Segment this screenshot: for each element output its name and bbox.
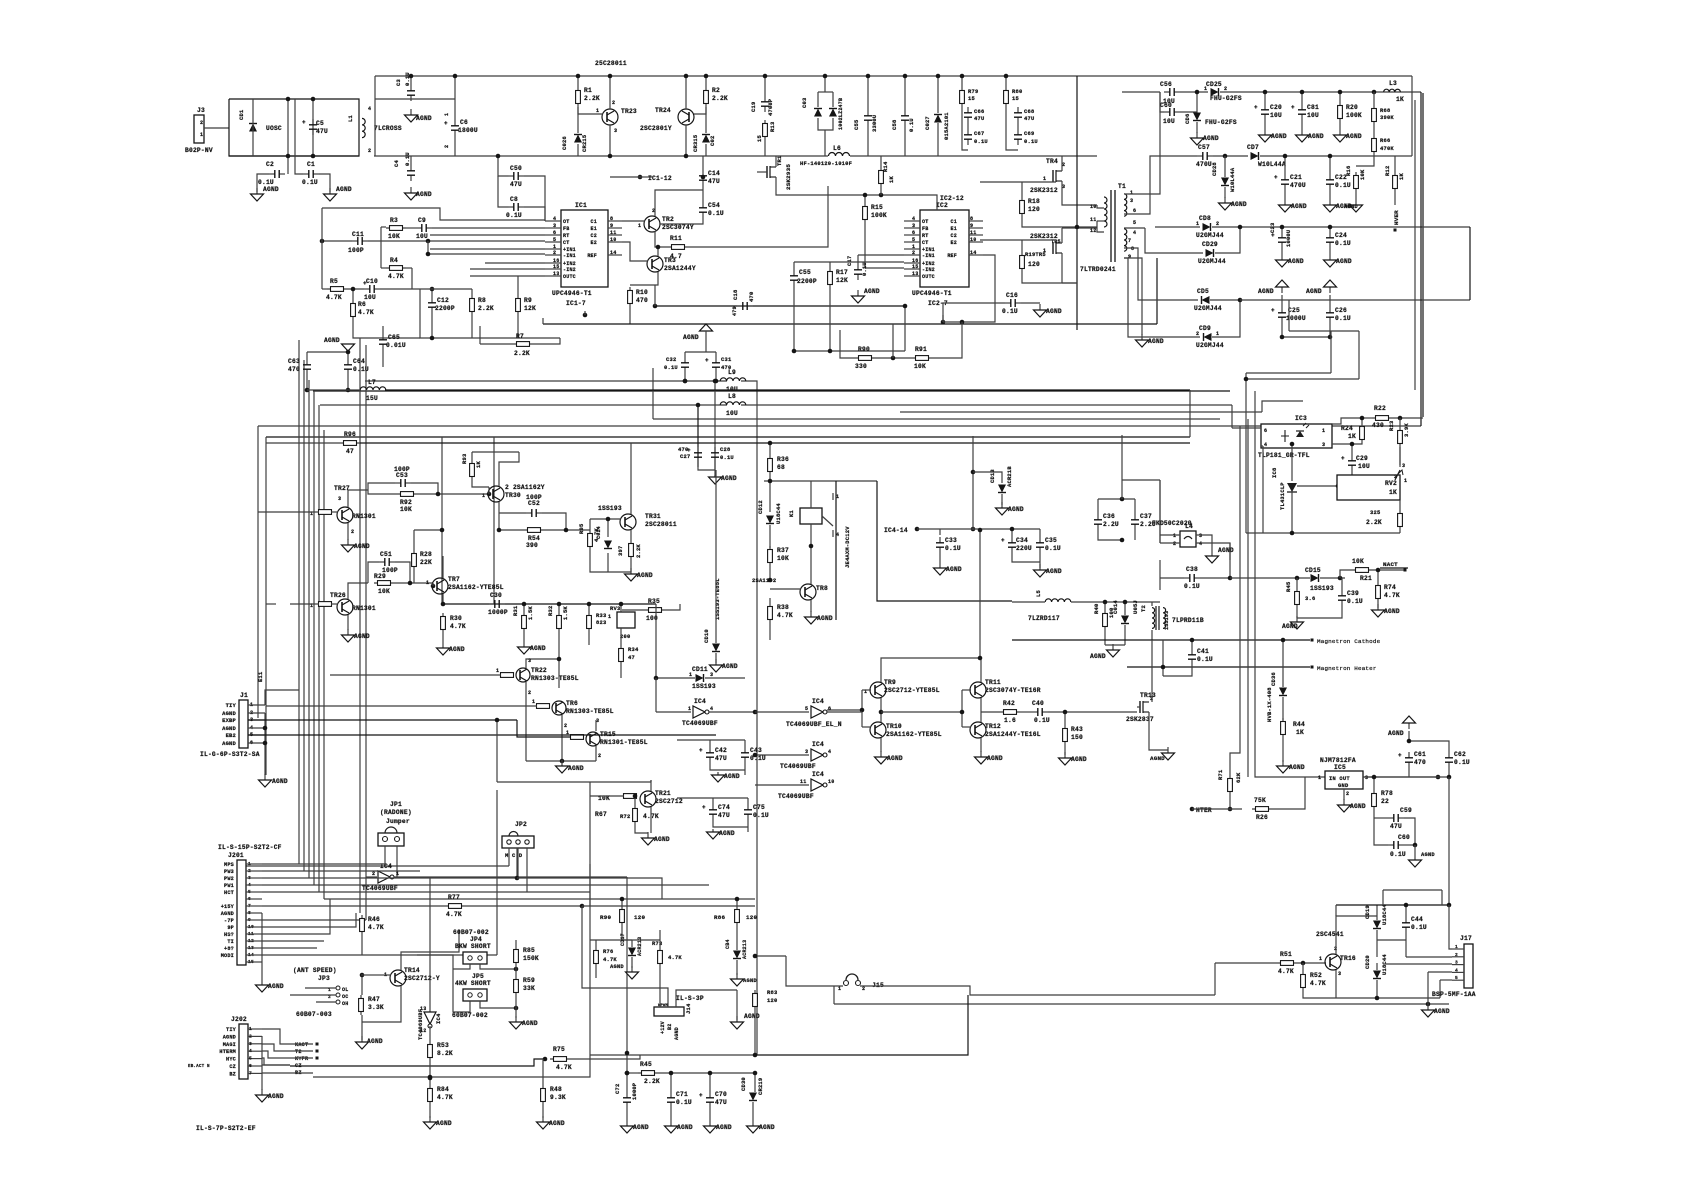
wire C50 out bbox=[524, 176, 545, 221]
svg-text:R18: R18 bbox=[1028, 198, 1040, 205]
capacitor C31 bbox=[705, 357, 720, 373]
wire TR26 base wire bbox=[290, 603, 319, 605]
wire sec2 from T1 bbox=[1124, 156, 1197, 214]
wire EXBP v bbox=[496, 720, 498, 782]
ground agnd C2 bbox=[251, 188, 264, 201]
wire C026 dn bbox=[577, 144, 579, 156]
wire j17 p4 bbox=[1428, 971, 1452, 973]
wire gateB out bbox=[709, 711, 755, 713]
svg-text:2: 2 bbox=[200, 120, 203, 126]
svg-text:1: 1 bbox=[688, 706, 691, 712]
resistor R22 bbox=[1372, 416, 1392, 421]
wire R77 line bbox=[336, 905, 445, 907]
wire r38 dn bbox=[769, 623, 771, 640]
svg-text:R43: R43 bbox=[1071, 726, 1083, 733]
diode C026 bbox=[574, 135, 582, 143]
wire right outer vertical2 bbox=[1414, 100, 1416, 390]
wire y892 long bbox=[319, 891, 590, 893]
wire R28 dn bbox=[413, 570, 415, 583]
wire C53 loop2 bbox=[411, 483, 438, 494]
wire TR5 drain bbox=[1061, 228, 1063, 243]
svg-text:1: 1 bbox=[200, 132, 203, 138]
svg-text:AGND: AGND bbox=[436, 1120, 452, 1127]
wire tr16 c net bbox=[1376, 905, 1378, 916]
ground agnd T2 bbox=[1107, 644, 1120, 657]
svg-text:R45: R45 bbox=[640, 1061, 652, 1068]
ground agnd TR27 bbox=[342, 539, 355, 552]
svg-text:CD5: CD5 bbox=[1197, 288, 1209, 295]
resistor R4 bbox=[386, 266, 406, 271]
svg-text:GND: GND bbox=[1338, 782, 1349, 789]
capacitor C35 bbox=[1036, 537, 1044, 553]
svg-text:AGND: AGND bbox=[416, 115, 432, 122]
wire r29 out bbox=[394, 582, 433, 584]
svg-text:3: 3 bbox=[1322, 442, 1325, 448]
wire c74 topline bbox=[677, 797, 748, 799]
svg-text:TR31: TR31 bbox=[645, 513, 661, 520]
svg-text:4700P: 4700P bbox=[767, 98, 774, 116]
svg-text:C63: C63 bbox=[288, 358, 300, 365]
svg-text:10K: 10K bbox=[914, 363, 926, 370]
svg-text:JP2: JP2 bbox=[515, 821, 527, 828]
wire C55 net top bbox=[794, 261, 904, 263]
svg-text:L8: L8 bbox=[728, 393, 736, 400]
wire J202 pin5 bbox=[248, 1058, 262, 1060]
svg-text:2SK2837: 2SK2837 bbox=[1126, 716, 1154, 723]
svg-text:10U: 10U bbox=[1163, 118, 1175, 125]
wire tr10 col bbox=[880, 712, 882, 722]
wire J202 pin6 bbox=[248, 1065, 262, 1067]
junction cd29 out bbox=[1238, 225, 1243, 230]
wire y866 bbox=[246, 865, 509, 867]
wire c34 up bbox=[1011, 529, 1013, 537]
wire R93 topnet bbox=[472, 451, 519, 453]
svg-text:60B07-002: 60B07-002 bbox=[453, 929, 489, 936]
svg-text:C55: C55 bbox=[799, 269, 811, 276]
wire tr8 col bbox=[810, 546, 812, 584]
svg-text:3: 3 bbox=[338, 496, 341, 502]
capacitor C10 bbox=[363, 280, 380, 293]
svg-text:J17: J17 bbox=[1460, 935, 1472, 942]
wire k1 frame bbox=[835, 481, 837, 620]
svg-text:AGND: AGND bbox=[887, 755, 903, 762]
wire r21 r bbox=[1372, 569, 1405, 571]
capacitor C57 bbox=[1197, 152, 1213, 160]
junction c41 bbox=[1190, 638, 1195, 643]
svg-text:L7: L7 bbox=[368, 379, 376, 386]
wire J201 p13 bbox=[262, 947, 317, 949]
svg-text:7LCROSS: 7LCROSS bbox=[374, 125, 402, 132]
wire TR26 int bbox=[331, 603, 338, 605]
capacitor C37 bbox=[1131, 514, 1139, 530]
svg-text:0.1U: 0.1U bbox=[720, 454, 734, 461]
svg-text:100P: 100P bbox=[394, 466, 410, 473]
resistor R96 bbox=[340, 441, 360, 446]
wire gateE in bbox=[755, 784, 809, 786]
svg-text:C26: C26 bbox=[1335, 307, 1347, 314]
capacitor C18 bbox=[737, 302, 753, 310]
svg-text:47U: 47U bbox=[715, 755, 727, 762]
wire r45b up bbox=[1296, 578, 1298, 588]
svg-text:TR13: TR13 bbox=[1140, 692, 1156, 699]
junction c63 b bbox=[305, 388, 310, 393]
capacitor C2 bbox=[269, 170, 285, 178]
wire IC2 rpin C1 bbox=[969, 220, 983, 222]
resistor R16 bbox=[1354, 172, 1359, 192]
wire R2 TR24 bbox=[694, 107, 706, 114]
svg-text:4: 4 bbox=[828, 749, 831, 755]
svg-text:R86: R86 bbox=[714, 914, 725, 921]
svg-text:470U: 470U bbox=[1196, 161, 1212, 168]
wire J201 pin14 bbox=[246, 954, 262, 956]
resistor R83 bbox=[753, 990, 758, 1010]
svg-text:2: 2 bbox=[1224, 86, 1227, 92]
wire c42 dn bbox=[710, 763, 745, 770]
wire R28 up bbox=[413, 530, 415, 550]
svg-text:L9: L9 bbox=[728, 369, 736, 376]
svg-text:C2: C2 bbox=[591, 233, 597, 239]
wire agnd mid1 stem bbox=[705, 331, 707, 352]
junction TR23e bbox=[608, 154, 613, 159]
ground agnd R59 bbox=[510, 1016, 523, 1029]
wire gateA in bbox=[366, 876, 377, 878]
svg-text:M C D: M C D bbox=[505, 852, 523, 859]
capacitor C71 bbox=[667, 1092, 675, 1108]
svg-text:C59: C59 bbox=[1400, 807, 1412, 814]
svg-text:0.1U: 0.1U bbox=[945, 545, 961, 552]
svg-text:-IN1: -IN1 bbox=[922, 253, 935, 259]
wire jp5 right bbox=[480, 1001, 516, 1008]
wire C66 box bbox=[962, 107, 968, 150]
svg-text:EB.ACT N: EB.ACT N bbox=[188, 1065, 210, 1069]
wire R17 top bbox=[829, 262, 831, 268]
svg-text:(ANT SPEED): (ANT SPEED) bbox=[293, 967, 337, 974]
svg-text:RT: RT bbox=[563, 233, 569, 239]
diode CD29 bbox=[1206, 249, 1214, 257]
capacitor C60 bbox=[1164, 108, 1180, 116]
svg-text:0.01U: 0.01U bbox=[386, 342, 406, 349]
svg-text:150: 150 bbox=[1071, 734, 1083, 741]
wire r36 up bbox=[769, 443, 771, 455]
svg-text:1: 1 bbox=[1322, 428, 1325, 434]
resistor R1 bbox=[576, 87, 581, 107]
diode C014 bbox=[1121, 616, 1129, 624]
svg-text:AGND: AGND bbox=[1346, 133, 1362, 140]
wire C81 dn bbox=[1301, 120, 1303, 129]
resistor R11 bbox=[668, 245, 688, 250]
wire R9 top bbox=[517, 276, 519, 295]
wire input box mid3 bbox=[312, 99, 314, 156]
svg-text:1: 1 bbox=[1130, 190, 1133, 196]
svg-text:4.7K: 4.7K bbox=[777, 612, 793, 619]
svg-text:R16: R16 bbox=[1345, 166, 1352, 176]
wire c32 dn bbox=[684, 373, 686, 381]
wire R14 top bbox=[880, 156, 882, 167]
wire IC2 rpin E1 bbox=[969, 227, 983, 229]
svg-text:AGND: AGND bbox=[416, 191, 432, 198]
ground agnd IC5 bbox=[1338, 799, 1351, 812]
pin IC1-7 dot bbox=[583, 313, 588, 318]
wire c64 dn bbox=[347, 375, 349, 390]
wire IC2 pin OUTC bbox=[904, 275, 920, 277]
wire y254 bbox=[428, 253, 545, 255]
svg-text:C70: C70 bbox=[715, 1091, 727, 1098]
svg-text:C43: C43 bbox=[750, 747, 762, 754]
junction y1004 j17 bbox=[1426, 1002, 1431, 1007]
wire TR31 emit bbox=[630, 530, 632, 540]
wire CD5 out bbox=[1210, 299, 1240, 301]
svg-text:IC4-14: IC4-14 bbox=[884, 527, 908, 534]
svg-text:1: 1 bbox=[1173, 533, 1176, 539]
wire j202 p3 bbox=[262, 1044, 313, 1051]
wire y1004 left bbox=[834, 1003, 975, 1005]
svg-text:100P: 100P bbox=[526, 494, 542, 501]
wire TR15 emit bbox=[595, 746, 597, 761]
svg-text:2.2K: 2.2K bbox=[478, 305, 494, 312]
wire c41 dn bbox=[1163, 665, 1192, 676]
ground agnd CD6 bbox=[1191, 132, 1204, 145]
wire c3132 bar bbox=[685, 351, 716, 353]
svg-text:R66: R66 bbox=[1380, 137, 1390, 144]
ground agnd L4 bbox=[1206, 550, 1219, 563]
svg-text:47U: 47U bbox=[510, 181, 522, 188]
wire c59 l bbox=[1374, 817, 1388, 819]
svg-text:7: 7 bbox=[249, 1070, 252, 1076]
svg-text:AGND: AGND bbox=[568, 765, 584, 772]
svg-text:TR9: TR9 bbox=[884, 679, 896, 686]
wire C026 bbox=[577, 107, 579, 133]
junction topbus2 bbox=[453, 74, 458, 79]
wire J201 p11 bbox=[262, 899, 330, 934]
svg-text:AGND: AGND bbox=[721, 475, 737, 482]
wire T1 p12 bbox=[1097, 228, 1104, 232]
wire gate wire 656 bbox=[655, 678, 657, 712]
resistor R12 bbox=[1393, 172, 1398, 192]
resistor R33b bbox=[587, 612, 592, 632]
svg-text:W10L44A: W10L44A bbox=[1229, 167, 1236, 192]
wire CD28 dn bbox=[1224, 187, 1226, 198]
wire r25 up bbox=[1399, 500, 1401, 510]
wire jp2 p3 bbox=[526, 848, 528, 892]
svg-text:470: 470 bbox=[678, 446, 688, 453]
wire c35 dn bbox=[1039, 553, 1041, 568]
ground agnd TR910 bbox=[875, 751, 888, 764]
capacitor C16 bbox=[1005, 299, 1021, 307]
junction tr31b bbox=[606, 517, 611, 522]
wire x1255 bbox=[1255, 391, 1325, 777]
svg-text:470U: 470U bbox=[1290, 182, 1306, 189]
svg-text:CR219: CR219 bbox=[757, 1078, 764, 1095]
capacitor C14 bbox=[699, 170, 707, 186]
ground agnd r45b bbox=[1291, 616, 1304, 629]
junction c14 t bbox=[701, 175, 706, 180]
wire top box outline bbox=[375, 98, 455, 100]
capacitor C51 bbox=[379, 558, 395, 566]
wire CR315 v bbox=[705, 107, 707, 133]
wire r32 dn bbox=[558, 632, 560, 645]
svg-text:AGND: AGND bbox=[677, 1124, 693, 1131]
wire cd11 net bbox=[655, 604, 657, 678]
wire r31 up bbox=[523, 604, 525, 612]
resistor R35 bbox=[645, 608, 665, 613]
svg-text:1: 1 bbox=[496, 668, 499, 674]
resistor TR21 base res bbox=[624, 794, 637, 799]
wire c28 dn bbox=[714, 463, 716, 477]
svg-text:AGND: AGND bbox=[716, 1124, 732, 1131]
resistor R53 bbox=[428, 1041, 433, 1061]
wire y871 long bbox=[304, 870, 420, 872]
svg-text:R53: R53 bbox=[437, 1042, 449, 1049]
wire jp2 p1 bbox=[508, 848, 510, 866]
wire J201 p2 bbox=[262, 870, 304, 872]
resistor R72 bbox=[633, 805, 638, 825]
connector J14 bbox=[654, 1007, 684, 1016]
wire c60b gnd bbox=[1414, 845, 1416, 854]
junction r54l bbox=[497, 528, 502, 533]
junction x627 bbox=[625, 1051, 630, 1056]
junction c61 t bbox=[1407, 739, 1412, 744]
svg-text:CR215: CR215 bbox=[581, 135, 588, 152]
wire j202 cz bbox=[262, 1064, 290, 1066]
wire EXBP bbox=[248, 719, 517, 721]
wire r47 wire bbox=[361, 974, 376, 976]
resistor R19 bbox=[1020, 252, 1025, 272]
wire tr1112 base bbox=[962, 689, 971, 691]
svg-text:0.1U: 0.1U bbox=[404, 152, 411, 166]
resistor R3 bbox=[386, 226, 406, 231]
capacitor C39 bbox=[1338, 590, 1346, 606]
svg-text:L4: L4 bbox=[1185, 523, 1193, 530]
ground agnd C74 bbox=[707, 829, 720, 839]
connector J3 body bbox=[194, 115, 204, 143]
wire C21 dn bbox=[1284, 190, 1286, 199]
wire c74 dn bbox=[713, 820, 748, 827]
svg-text:R78: R78 bbox=[1381, 790, 1393, 797]
wire R68 R66 bbox=[1373, 125, 1375, 135]
ground agnd CD17 bbox=[626, 966, 639, 979]
svg-text:R91: R91 bbox=[915, 346, 927, 353]
wire R12 dn bbox=[1394, 192, 1396, 205]
svg-text:2: 2 bbox=[528, 690, 531, 696]
wire TR26 col bbox=[348, 583, 368, 599]
wire jp5 loop bbox=[453, 969, 470, 1012]
wire L4 net up bbox=[1159, 480, 1161, 543]
wire r40 up bbox=[1104, 602, 1106, 610]
diode C03a bbox=[814, 109, 822, 117]
IC IC5 bbox=[1325, 771, 1363, 789]
junction R79 bbox=[960, 74, 965, 79]
wire vert x494 bbox=[493, 437, 495, 604]
svg-text:0.1U: 0.1U bbox=[258, 179, 274, 186]
junction c62 b bbox=[1447, 775, 1452, 780]
junction r86b bbox=[735, 897, 740, 902]
svg-text:1SS193: 1SS193 bbox=[692, 683, 716, 690]
svg-text:0.1U: 0.1U bbox=[1184, 583, 1200, 590]
wire J1 p1 bbox=[265, 690, 299, 705]
svg-text:3: 3 bbox=[1455, 960, 1458, 966]
svg-text:R83: R83 bbox=[767, 989, 777, 996]
svg-text:AGND: AGND bbox=[683, 334, 699, 341]
svg-text:0.1U: 0.1U bbox=[676, 1099, 692, 1106]
resistor R84 bbox=[428, 1085, 433, 1105]
wire J202 pin3 bbox=[248, 1043, 262, 1045]
svg-text:CT: CT bbox=[563, 240, 569, 246]
resistor R68 bbox=[1372, 105, 1377, 125]
svg-text:4.7K: 4.7K bbox=[668, 954, 682, 961]
ground agnd C20 bbox=[1259, 129, 1272, 142]
wire r37 dn bbox=[769, 566, 771, 580]
svg-text:+: + bbox=[444, 120, 448, 127]
wire c52 l bbox=[499, 512, 526, 514]
svg-text:3: 3 bbox=[1402, 463, 1405, 469]
svg-text:150K: 150K bbox=[523, 955, 539, 962]
svg-text:T1: T1 bbox=[1118, 183, 1126, 190]
wire IC2 pin +IN1 bbox=[904, 248, 920, 250]
svg-text:+: + bbox=[1341, 455, 1345, 462]
svg-text:AGND: AGND bbox=[1231, 201, 1247, 208]
wire r53 dn bbox=[429, 1061, 431, 1085]
junction r83 branch bbox=[753, 954, 758, 959]
svg-text:470: 470 bbox=[288, 366, 300, 373]
svg-text:0.1U: 0.1U bbox=[1335, 182, 1351, 189]
svg-text:R5: R5 bbox=[330, 278, 338, 285]
junction r90b bbox=[620, 897, 625, 902]
wire TR26 emit bbox=[347, 615, 349, 630]
svg-text:U05J: U05J bbox=[1132, 600, 1139, 614]
wire r73 up bbox=[659, 930, 661, 947]
wire x497 v bbox=[496, 790, 498, 955]
wire TR27 emit bbox=[347, 523, 349, 540]
svg-text:25C28011: 25C28011 bbox=[595, 60, 627, 67]
resistor R45b bbox=[1295, 588, 1300, 608]
junction c38r bbox=[1228, 576, 1233, 581]
connector J202 bbox=[239, 1024, 248, 1079]
capacitor C3 bbox=[407, 85, 415, 101]
svg-text:1: 1 bbox=[608, 614, 611, 620]
net NACT underline bbox=[1380, 567, 1408, 569]
wire R14 net bbox=[846, 195, 937, 210]
wire ic1 wire5 bbox=[470, 268, 545, 270]
capacitor C22 bbox=[1326, 174, 1334, 190]
svg-text:CD12: CD12 bbox=[757, 500, 764, 514]
junction x627 r45 bbox=[625, 1071, 630, 1076]
svg-text:5: 5 bbox=[805, 706, 808, 712]
svg-text:CR315: CR315 bbox=[692, 135, 699, 152]
svg-text:R42: R42 bbox=[1003, 700, 1015, 707]
wire J201 p3 bbox=[262, 877, 309, 879]
svg-text:C74: C74 bbox=[718, 804, 730, 811]
wire C25 dn bbox=[1281, 323, 1283, 337]
wire T1 p3 bbox=[1062, 282, 1077, 284]
wire x973 bbox=[972, 436, 974, 530]
wire TR23 col bbox=[609, 76, 611, 109]
wire tr910 in bbox=[827, 709, 862, 711]
svg-text:R92: R92 bbox=[400, 499, 412, 506]
jumper JP5 bbox=[463, 989, 487, 1001]
svg-text:Magnetron Cathode: Magnetron Cathode bbox=[1317, 638, 1381, 645]
resistor R79 bbox=[960, 87, 965, 107]
wire c71 dn bbox=[670, 1108, 672, 1120]
svg-text:R31: R31 bbox=[512, 605, 519, 616]
svg-text:AGND: AGND bbox=[759, 1124, 775, 1131]
wire r21 l bbox=[1340, 570, 1352, 578]
svg-text:2: 2 bbox=[598, 753, 601, 759]
wire J201 pin10 bbox=[246, 926, 262, 928]
wire jp4jp5 bbox=[417, 955, 453, 969]
wire gateC out bbox=[827, 711, 862, 713]
transformer T2 core1 bbox=[1155, 606, 1157, 630]
junction r92 out bbox=[436, 492, 441, 497]
